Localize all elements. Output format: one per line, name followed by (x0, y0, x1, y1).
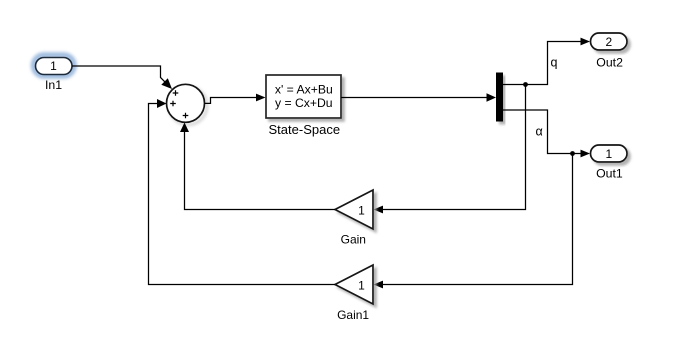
svg-text:x' = Ax+Bu: x' = Ax+Bu (275, 83, 333, 97)
svg-text:Gain1: Gain1 (337, 308, 369, 322)
gain block Gain1 (335, 265, 373, 322)
svg-text:1: 1 (605, 147, 612, 161)
svg-text:Gain: Gain (341, 233, 366, 247)
state-space block State-Space (266, 75, 341, 137)
gain block Gain (335, 190, 373, 247)
svg-text:2: 2 (605, 35, 612, 49)
svg-text:Out1: Out1 (596, 167, 623, 181)
wire alpha branch to Gain1 (374, 154, 573, 289)
wire q branch to Gain (374, 85, 526, 214)
svg-text:In1: In1 (45, 78, 62, 92)
svg-text:1: 1 (50, 59, 57, 73)
junction node q branch (523, 82, 528, 87)
wire In1 to Sum (72, 66, 172, 89)
input port In1 (34, 55, 75, 92)
wire Demux to Out2 (signal q) (503, 38, 590, 85)
wire Demux to Out1 (signal alpha) (503, 110, 590, 157)
output port Out1 (591, 145, 628, 181)
svg-text:q: q (551, 56, 558, 70)
wire State-Space to Demux (341, 93, 496, 101)
svg-text:Out2: Out2 (596, 55, 623, 69)
sum block Sum (167, 84, 208, 125)
svg-text:State-Space: State-Space (269, 122, 341, 137)
svg-text:1: 1 (358, 278, 365, 292)
svg-text:y = Cx+Du: y = Cx+Du (275, 96, 333, 110)
demux Demux (496, 73, 503, 122)
svg-text:α: α (536, 125, 543, 139)
svg-text:1: 1 (358, 203, 365, 217)
wire Sum to State-Space (205, 94, 266, 104)
wire Gain to Sum bottom input (180, 123, 335, 210)
wire Gain1 to Sum left input (149, 99, 336, 285)
output port Out2 (591, 33, 628, 69)
junction node alpha branch (570, 151, 575, 156)
